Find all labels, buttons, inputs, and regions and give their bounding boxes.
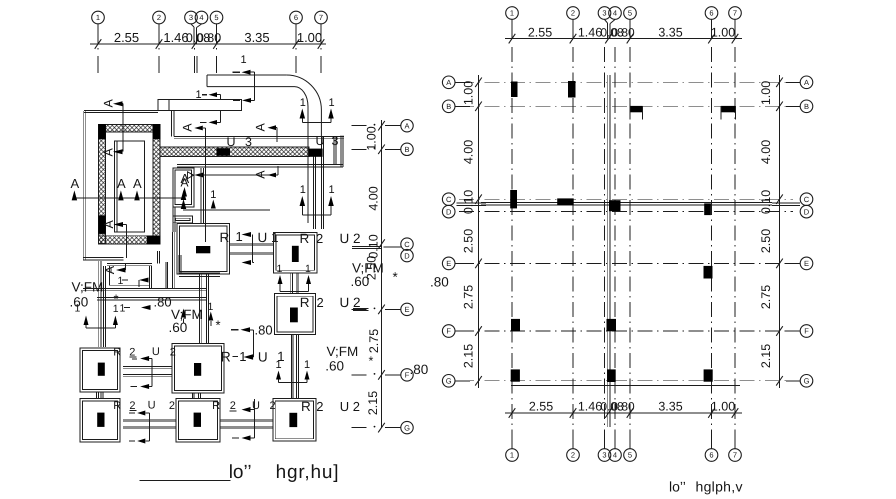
svg-text:2.15: 2.15 <box>462 344 476 368</box>
right plan right row bubbles <box>800 76 813 89</box>
corridor hatch band <box>160 147 309 157</box>
svg-text:1: 1 <box>329 184 335 196</box>
svg-text:1.00: 1.00 <box>297 30 322 45</box>
svg-text:E: E <box>446 259 451 268</box>
right plan vertical gridlines 1-7 dash-dot <box>511 47 513 446</box>
hatched room black corner blocks <box>98 124 106 139</box>
top protrusion bar <box>158 99 242 110</box>
svg-text:1.00: 1.00 <box>462 81 476 105</box>
footing F2 pad <box>172 344 224 394</box>
left drawing caption underline <box>140 480 231 482</box>
svg-text:A: A <box>133 176 142 191</box>
svg-text:A: A <box>254 170 268 179</box>
footing G2 black core <box>194 413 201 427</box>
svg-text:R: R <box>113 347 121 359</box>
svg-text:2.55: 2.55 <box>528 26 552 40</box>
svg-text:G: G <box>446 377 452 386</box>
svg-text:D: D <box>404 251 410 260</box>
svg-text:2: 2 <box>317 295 324 310</box>
svg-text:C: C <box>804 195 810 204</box>
svg-text:A: A <box>71 176 80 191</box>
footing F2 black core <box>194 363 201 376</box>
svg-text:A: A <box>102 220 116 229</box>
svg-text:V;FM: V;FM <box>72 280 104 295</box>
svg-text:6: 6 <box>709 9 713 18</box>
right plan column A2 <box>568 81 576 98</box>
svg-text:*: * <box>369 354 374 368</box>
midleft long wall lower <box>83 287 206 289</box>
svg-text:A: A <box>102 99 116 108</box>
beam G2-G3 <box>220 418 273 420</box>
svg-text:A: A <box>254 123 268 132</box>
svg-text:U 2: U 2 <box>340 399 360 414</box>
svg-text:5: 5 <box>628 9 632 18</box>
beam F2-G2 vertical <box>191 393 193 399</box>
duct top band <box>207 75 295 87</box>
beam R1 down to F2 <box>199 274 201 344</box>
svg-text:D: D <box>446 207 452 216</box>
hatched room right band <box>153 124 160 243</box>
svg-text:C: C <box>404 240 410 249</box>
corridor hatch black segment 1 <box>217 148 231 156</box>
svg-text:R: R <box>212 400 220 412</box>
left plan right extension marks <box>352 125 367 127</box>
svg-text:R: R <box>300 231 310 246</box>
footing F1 pad <box>80 348 120 392</box>
svg-text:1: 1 <box>305 263 311 275</box>
right plan column C6 <box>704 203 711 215</box>
footing R2 pad row C/D <box>274 232 318 272</box>
svg-text:*: * <box>216 318 221 333</box>
right plan column C3 <box>609 200 621 211</box>
svg-text:1: 1 <box>120 303 126 315</box>
midleft wall right mid <box>179 272 220 274</box>
svg-text:E: E <box>804 259 809 268</box>
svg-text:2: 2 <box>270 400 276 412</box>
svg-text:U 2: U 2 <box>340 231 361 246</box>
svg-text:1.00: 1.00 <box>759 81 773 105</box>
annotation section A mark below corridor end <box>203 174 278 176</box>
right plan top bubbles 1-7 <box>506 7 519 20</box>
svg-text:1: 1 <box>196 89 202 101</box>
midleft wall under .80 <box>97 296 206 298</box>
svg-text:4: 4 <box>613 9 617 18</box>
svg-text:hgr,hu]: hgr,hu] <box>276 462 340 483</box>
svg-text:2.75: 2.75 <box>462 285 476 309</box>
svg-text:4: 4 <box>613 451 617 460</box>
left plan top bubble leader lines <box>97 24 99 44</box>
section A-A arrows and labels <box>72 190 78 200</box>
right plan bottom bubbles 1-7 <box>506 449 519 462</box>
beam E footing to row G <box>290 335 292 399</box>
midleft verticals <box>98 261 100 347</box>
right plan column E6 <box>704 266 713 279</box>
svg-text:R: R <box>221 349 231 365</box>
svg-text:3.35: 3.35 <box>244 30 269 45</box>
duct curved elbow <box>286 75 321 136</box>
svg-text:*: * <box>393 270 399 285</box>
svg-text:3: 3 <box>189 13 193 22</box>
svg-text:1.00: 1.00 <box>711 400 735 414</box>
outer boundary top wall <box>84 109 158 111</box>
svg-text:2.75: 2.75 <box>759 285 773 309</box>
svg-text:4: 4 <box>199 13 203 22</box>
footing R1 pad <box>177 224 230 275</box>
right plan column F1 <box>511 319 520 331</box>
svg-text:.60: .60 <box>70 295 89 310</box>
svg-text:A: A <box>404 121 409 130</box>
svg-text:1.00: 1.00 <box>711 26 735 40</box>
svg-text:.60: .60 <box>325 359 344 374</box>
leader arrow row F label <box>132 358 137 360</box>
left plan top dimension line <box>90 43 326 45</box>
svg-text:lo’’: lo’’ <box>229 462 252 483</box>
svg-text:.60: .60 <box>169 320 188 335</box>
corridor hatch black segment 2 <box>309 149 323 157</box>
inner room rectangle <box>115 141 145 232</box>
svg-text:4.00: 4.00 <box>367 186 381 210</box>
svg-text:A: A <box>446 78 451 87</box>
svg-text:U: U <box>148 399 156 411</box>
corridor right end box <box>333 137 335 165</box>
svg-text:D: D <box>804 207 810 216</box>
svg-text:1.46: 1.46 <box>578 400 602 414</box>
svg-text:1: 1 <box>510 451 514 460</box>
right plan column F3 <box>607 319 617 331</box>
outer boundary left wall <box>82 111 84 260</box>
right plan left row bubbles <box>442 76 455 89</box>
svg-text:2: 2 <box>571 451 575 460</box>
wall below shaft going down <box>172 207 174 232</box>
svg-text:C: C <box>446 195 452 204</box>
footing row E black core <box>290 308 298 323</box>
right plan top dimension line <box>505 38 742 40</box>
svg-text:3.35: 3.35 <box>658 26 682 40</box>
svg-text:1: 1 <box>329 97 335 109</box>
svg-text:0.80: 0.80 <box>611 26 635 40</box>
svg-text:6: 6 <box>294 13 298 22</box>
shaft leader arrow from duct <box>194 173 203 178</box>
footing G1 pad <box>80 399 120 443</box>
midleft small room inner <box>110 266 150 286</box>
svg-text:A: A <box>181 176 189 190</box>
svg-text:1: 1 <box>208 301 214 313</box>
midleft wall A <box>107 262 152 264</box>
footing G2 pad <box>176 399 220 443</box>
svg-text:1.46: 1.46 <box>578 26 602 40</box>
right plan bottom bubble leaders <box>511 443 513 449</box>
beam G1-G2 <box>123 418 176 420</box>
svg-text:1.00: 1.00 <box>365 126 379 150</box>
svg-text:2.55: 2.55 <box>114 30 139 45</box>
svg-text:3: 3 <box>602 451 606 460</box>
svg-text:U 2: U 2 <box>340 295 361 310</box>
right plan column A1 <box>511 82 518 98</box>
svg-text:2: 2 <box>170 347 176 359</box>
svg-text:0.80: 0.80 <box>611 400 635 414</box>
corridor top wall <box>174 136 344 138</box>
svg-text:.60: .60 <box>351 274 370 289</box>
interior shaft double-wall box <box>173 168 194 207</box>
right plan column B7 <box>721 106 736 112</box>
svg-text:3: 3 <box>332 134 339 148</box>
right plan wall line row C <box>481 201 772 203</box>
svg-text:2: 2 <box>316 399 323 414</box>
svg-text:A: A <box>181 123 195 132</box>
svg-text:1: 1 <box>96 13 100 22</box>
svg-text:1: 1 <box>210 189 216 201</box>
svg-text:U: U <box>258 350 268 365</box>
svg-text:1: 1 <box>241 54 247 66</box>
svg-text:R: R <box>113 400 121 412</box>
svg-text:2: 2 <box>230 400 236 412</box>
footing G1 black core <box>97 413 104 427</box>
svg-text:2: 2 <box>571 9 575 18</box>
svg-text:1: 1 <box>113 303 119 315</box>
svg-text:lo’’: lo’’ <box>669 479 686 495</box>
corridor bottom wall <box>177 164 343 166</box>
small box below shaft <box>173 216 192 223</box>
right plan horizontal gridlines A-G dash-dot <box>459 81 793 83</box>
right plan wall line row G <box>511 384 740 386</box>
svg-text:2.55: 2.55 <box>529 400 553 414</box>
svg-text:3: 3 <box>602 9 606 18</box>
svg-text:1: 1 <box>300 97 306 109</box>
right plan right dimension line <box>779 75 781 388</box>
svg-text:5: 5 <box>628 451 632 460</box>
svg-text:B: B <box>804 102 809 111</box>
footing G3 black core <box>289 413 297 427</box>
section line A-A horizontal <box>74 197 185 199</box>
svg-text:E: E <box>404 305 409 314</box>
svg-text:hglph,v: hglph,v <box>696 479 743 495</box>
svg-text:F: F <box>804 327 809 336</box>
left plan top grid bubbles 1-7 <box>92 11 105 24</box>
svg-text:R: R <box>220 230 230 245</box>
svg-text:U: U <box>227 135 236 149</box>
svg-text:2: 2 <box>316 231 323 246</box>
svg-text:2.75: 2.75 <box>367 329 381 353</box>
svg-text:6: 6 <box>709 451 713 460</box>
svg-text:F: F <box>446 327 451 336</box>
dash arrow .80 row E <box>231 329 239 331</box>
svg-text:R: R <box>301 399 311 414</box>
beam vertical R2 to E footing <box>290 273 292 294</box>
svg-text:2.15: 2.15 <box>366 391 380 415</box>
svg-text:.80: .80 <box>255 323 273 338</box>
svg-text:A: A <box>103 265 117 274</box>
svg-text:G: G <box>804 377 810 386</box>
annotation arrow at bar2 bottom <box>200 121 207 123</box>
beam F1-G1 vertical <box>96 392 98 399</box>
svg-text:U: U <box>252 400 260 412</box>
svg-text:.80: .80 <box>410 362 429 377</box>
right plan column B5 <box>630 106 643 112</box>
svg-text:G: G <box>404 423 410 432</box>
svg-text:B: B <box>404 145 409 154</box>
footing G3 pad <box>273 399 316 442</box>
right plan column G6 <box>704 369 713 381</box>
svg-text:0.10: 0.10 <box>759 190 773 214</box>
svg-text:R: R <box>300 295 310 310</box>
duct vertical walls down through plan <box>307 136 309 223</box>
big room left wall <box>200 168 202 224</box>
svg-text:3: 3 <box>245 135 252 149</box>
svg-text:4.00: 4.00 <box>759 140 773 164</box>
hatched room left band <box>99 124 106 243</box>
svg-text:3.35: 3.35 <box>658 400 682 414</box>
svg-text:2: 2 <box>157 13 161 22</box>
svg-text:1: 1 <box>118 275 124 287</box>
hatched room top band <box>99 124 161 132</box>
svg-text:0.80: 0.80 <box>197 31 221 45</box>
footing row E pad <box>275 294 316 335</box>
svg-text:7: 7 <box>319 13 323 22</box>
footing R2 black core <box>292 246 299 262</box>
svg-text:1: 1 <box>300 184 306 196</box>
svg-text:U: U <box>316 134 325 148</box>
left plan right row bubbles A-G <box>401 120 413 132</box>
svg-text:1: 1 <box>304 359 310 371</box>
hatched room bottom band <box>99 236 161 245</box>
svg-text:.80: .80 <box>154 295 172 310</box>
svg-text:1: 1 <box>236 229 243 244</box>
right plan column C1 <box>510 190 517 208</box>
svg-text:7: 7 <box>733 451 737 460</box>
svg-text:2.50: 2.50 <box>462 229 476 253</box>
footing R1 black core <box>196 246 210 253</box>
footing F1 black core <box>98 363 105 376</box>
boundary step down to corridor <box>171 111 173 137</box>
right plan column G3 <box>607 369 615 382</box>
svg-text:A: A <box>117 176 126 191</box>
svg-text:1: 1 <box>277 263 283 275</box>
svg-text:2.50: 2.50 <box>759 229 773 253</box>
left plan right dimension line <box>381 120 383 428</box>
svg-text:0.10: 0.10 <box>462 190 476 214</box>
svg-text:A: A <box>102 148 116 157</box>
svg-text:1: 1 <box>277 349 285 364</box>
right plan extra solid double line at grid 3 <box>606 75 608 427</box>
svg-text:1: 1 <box>510 9 514 18</box>
left plan top grid dashes below dim line <box>97 48 99 50</box>
beam R1-R2 <box>230 242 274 244</box>
svg-text:0.10: 0.10 <box>367 234 381 258</box>
right plan left dimension line <box>478 75 480 388</box>
svg-text:4.00: 4.00 <box>462 140 476 164</box>
svg-text:U: U <box>152 346 160 358</box>
svg-text:2: 2 <box>169 400 175 412</box>
svg-text:B: B <box>446 102 451 111</box>
right plan column C2 <box>557 198 574 205</box>
svg-text:.80: .80 <box>430 275 449 290</box>
svg-text:7: 7 <box>733 9 737 18</box>
outer boundary bottom-left wall <box>83 257 124 259</box>
beam F1-F2 <box>123 365 172 367</box>
right plan bottom dimension line <box>505 412 742 414</box>
svg-text:V;FM: V;FM <box>327 344 359 359</box>
right plan column G1 <box>511 369 520 381</box>
svg-text:2.15: 2.15 <box>759 344 773 368</box>
svg-text:A: A <box>804 78 809 87</box>
right plan top bubble leaders <box>511 20 513 39</box>
svg-text:5: 5 <box>214 13 218 22</box>
shaft A arrows <box>188 172 194 179</box>
